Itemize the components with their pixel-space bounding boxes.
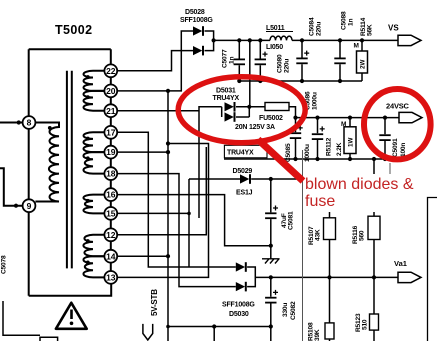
pin 13 [104, 271, 117, 284]
junction [86, 137, 90, 141]
inductor L5011 [270, 36, 292, 40]
section border right [428, 198, 437, 341]
wire pin12 riser [117, 147, 206, 235]
capacitor C5091 [384, 118, 386, 159]
svg-text:43K: 43K [315, 229, 322, 241]
wire pin17 to D5030 top anode [117, 132, 236, 267]
Va1 rail [255, 276, 398, 278]
pin 12 [104, 228, 117, 241]
resistor R5123 [373, 277, 375, 341]
wire: transformer top rail [29, 48, 111, 50]
svg-text:18: 18 [106, 169, 116, 179]
svg-text:C5080: C5080 [277, 54, 284, 73]
section divider [302, 150, 304, 341]
svg-text:9: 9 [27, 201, 32, 211]
wire pin15 to D5029 wire [117, 179, 189, 267]
svg-text:560: 560 [359, 230, 366, 241]
capacitor C5077 [238, 40, 240, 81]
capacitor C5086 [317, 118, 319, 159]
resistor R5107 [329, 179, 331, 277]
svg-text:16: 16 [106, 190, 116, 200]
svg-text:LI050: LI050 [266, 44, 283, 51]
warning triangle [56, 303, 87, 329]
junction [14, 204, 18, 208]
secondary winding 22-20 [83, 71, 104, 91]
wire pin14 to bus [117, 255, 168, 257]
junction [338, 79, 342, 83]
D5031 anode bar [221, 107, 223, 117]
junction [293, 116, 297, 120]
svg-text:FU5002: FU5002 [259, 115, 283, 122]
svg-text:100n: 100n [400, 143, 407, 157]
svg-text:L5011: L5011 [266, 25, 285, 32]
ground [270, 246, 272, 259]
svg-text:D5028: D5028 [185, 9, 205, 16]
capacitor C5080 [259, 40, 261, 81]
svg-text:22: 22 [106, 66, 116, 76]
pin 16 [104, 188, 117, 201]
svg-text:TRU4YX: TRU4YX [213, 95, 240, 102]
node 9 [23, 199, 36, 212]
diode D5028a [193, 26, 202, 35]
resistor R5114 [361, 40, 363, 81]
svg-text:fuse: fuse [305, 193, 335, 210]
svg-text:D5031: D5031 [216, 88, 236, 95]
svg-text:17: 17 [106, 127, 116, 137]
junction [383, 116, 387, 120]
svg-text:C5081: C5081 [288, 211, 295, 230]
resistor R5112 [349, 118, 351, 159]
capacitor C5085 [295, 118, 297, 159]
return rail y=159 [224, 158, 385, 160]
pin 15 [104, 207, 117, 220]
junction [327, 275, 331, 279]
svg-text:C5082: C5082 [290, 301, 297, 320]
svg-text:21: 21 [106, 106, 116, 116]
svg-text:M: M [341, 121, 346, 128]
junction [86, 75, 90, 79]
diode D5030b [236, 282, 245, 291]
wire D5029 row [189, 178, 330, 180]
svg-text:1n: 1n [229, 57, 236, 64]
svg-text:12: 12 [106, 230, 116, 240]
wire: pin column [110, 49, 112, 284]
node 8 [23, 116, 36, 129]
svg-text:24VSC: 24VSC [386, 102, 410, 111]
diode D5030a [236, 262, 245, 271]
junction [86, 239, 90, 243]
svg-text:M: M [354, 43, 359, 50]
junction [17, 120, 21, 124]
junction [348, 116, 352, 120]
svg-text:R5112: R5112 [326, 137, 333, 156]
wire pin21 to D5031 anodes [117, 107, 222, 218]
svg-text:8: 8 [27, 118, 32, 128]
junction [300, 38, 304, 42]
junction [258, 79, 262, 83]
svg-text:1000u: 1000u [312, 92, 319, 110]
red ellipse around blown diodes and fuse [178, 77, 305, 143]
svg-text:C5084: C5084 [309, 17, 316, 36]
wire: left edge to node 8 [0, 122, 22, 124]
svg-text:blown diodes &: blown diodes & [305, 176, 414, 193]
svg-text:39K: 39K [314, 329, 321, 341]
bottom left partial box [40, 337, 58, 341]
svg-text:D5030: D5030 [229, 311, 249, 318]
svg-text:C5078: C5078 [1, 255, 8, 274]
svg-text:20: 20 [106, 86, 116, 96]
junction [48, 126, 52, 130]
svg-text:ES1J: ES1J [236, 190, 253, 197]
svg-text:TRU4YX: TRU4YX [227, 149, 254, 156]
junction [300, 79, 304, 83]
svg-text:T5002: T5002 [55, 23, 92, 37]
wire: transformer bottom rail [29, 284, 112, 296]
junction [187, 212, 191, 216]
svg-text:13: 13 [106, 273, 116, 283]
bus branch to bottom rail [168, 327, 271, 341]
D5031 cathode bar + riser from VS rail [236, 40, 250, 117]
wire D5028 cathodes join [205, 31, 214, 51]
svg-text:1000u: 1000u [304, 144, 311, 162]
junction [212, 324, 216, 328]
pin 21 [104, 104, 117, 117]
annotation white backdrop [303, 174, 420, 212]
wire pin22 riser to D5028 [117, 51, 193, 71]
fuse FU5002 [249, 107, 295, 118]
junction [269, 275, 273, 279]
secondary winding 19-18 [83, 152, 104, 174]
VS bottom rail [239, 80, 362, 82]
red leader line [258, 140, 303, 182]
section divider short [389, 163, 391, 174]
junction [237, 79, 241, 83]
junction [166, 89, 170, 93]
secondary winding 14-13 [83, 256, 104, 277]
wire: left column through nodes 8,9 [28, 49, 30, 296]
junction [372, 275, 376, 279]
junction [269, 244, 273, 248]
wire D5030 cathodes join to Va1 [247, 267, 255, 287]
svg-text:C5077: C5077 [222, 49, 229, 68]
junction [315, 157, 319, 161]
red circle around 24VSC [364, 89, 431, 159]
capacitor C5088 [339, 40, 341, 81]
junction [293, 157, 297, 161]
24VSC rail [296, 117, 400, 119]
junction [166, 150, 170, 154]
junction [383, 157, 387, 161]
junction [86, 95, 90, 99]
junction [166, 141, 170, 145]
svg-text:2.2K: 2.2K [336, 142, 343, 156]
VS rail [214, 39, 270, 41]
pin 20 [104, 85, 117, 98]
VS output arrow [398, 35, 421, 45]
bottom left wire [3, 301, 40, 335]
pin 22 [104, 64, 117, 77]
capacitor C5082 330u [270, 277, 272, 341]
capacitor C5081 47uF [270, 179, 272, 246]
svg-text:VS: VS [388, 24, 399, 33]
svg-text:C5085: C5085 [285, 143, 292, 162]
junction [86, 199, 90, 203]
svg-text:Va1: Va1 [394, 259, 407, 268]
capacitor C5084 [301, 40, 303, 81]
svg-text:2W: 2W [360, 59, 367, 69]
svg-text:56K: 56K [367, 24, 374, 36]
svg-text:C5088: C5088 [341, 11, 348, 30]
svg-text:D5029: D5029 [233, 168, 253, 175]
svg-text:14: 14 [106, 251, 116, 261]
junction [315, 116, 319, 120]
pin 18 [104, 167, 117, 180]
junction [86, 261, 90, 265]
svg-text:5V-STB: 5V-STB [150, 289, 159, 316]
svg-text:20N 125V 3A: 20N 125V 3A [235, 124, 275, 131]
svg-text:C5091: C5091 [392, 138, 399, 157]
junction [360, 38, 364, 42]
pin 17 [104, 126, 117, 139]
diode D5031b [225, 112, 234, 121]
wire pin13 riser to bus branch [117, 144, 208, 278]
secondary winding 17-19 [83, 132, 104, 152]
svg-text:510: 510 [362, 319, 369, 330]
Va1 arrow [398, 272, 421, 282]
diode D5031a [225, 102, 234, 111]
primary winding [35, 123, 59, 202]
junction [166, 254, 170, 258]
shield symbol [143, 324, 153, 340]
junction [258, 38, 262, 42]
wire pin19 to bus [117, 151, 168, 153]
wire: left edge feed to node 9 [0, 168, 22, 205]
secondary winding 20-21 [84, 91, 105, 111]
wire pin20 to D5028 anode riser [117, 31, 193, 91]
junction [348, 157, 352, 161]
junction [372, 157, 376, 161]
junction [86, 156, 90, 160]
secondary winding 16-15 [83, 195, 104, 214]
svg-text:220u: 220u [284, 59, 291, 73]
diode D5029 [240, 174, 249, 183]
svg-text:19: 19 [106, 147, 116, 157]
svg-text:330u: 330u [282, 303, 289, 317]
svg-text:SFF1008G: SFF1008G [180, 17, 213, 24]
junction [247, 105, 251, 109]
resistor R5116 [373, 159, 375, 277]
transformer core [67, 71, 72, 269]
24VSC arrow [399, 112, 422, 122]
wire pin16 to C5081 ground node [117, 195, 271, 246]
junction [212, 38, 216, 42]
svg-text:1W: 1W [348, 137, 355, 147]
junction [269, 177, 273, 181]
pin 19 [104, 146, 117, 159]
svg-text:SFF1008G: SFF1008G [222, 302, 255, 309]
junction [248, 38, 252, 42]
diode D5028b [193, 46, 202, 55]
5V-STB bus [167, 91, 169, 341]
wire pin18 to D5030 bottom anode [117, 174, 236, 287]
svg-text:15: 15 [106, 209, 116, 219]
junction [166, 325, 170, 329]
junction [269, 324, 273, 328]
svg-text:1n: 1n [348, 19, 355, 26]
pin 14 [104, 250, 117, 263]
resistor R5108 [329, 277, 331, 341]
svg-text:220u: 220u [316, 22, 323, 36]
junction [338, 38, 342, 42]
secondary winding 12-14 [83, 235, 104, 256]
junction [237, 38, 241, 42]
